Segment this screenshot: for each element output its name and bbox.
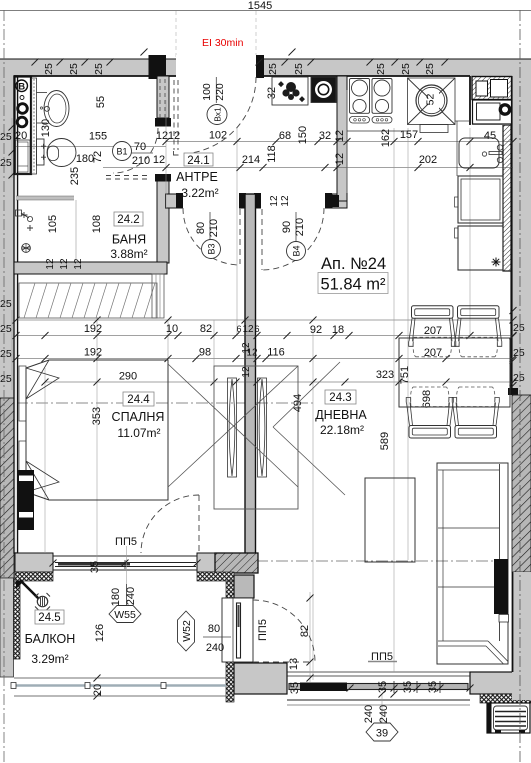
svg-text:1545: 1545 [248, 0, 272, 12]
living balcony-side wall insulation [226, 581, 234, 702]
svg-text:240: 240 [378, 705, 390, 723]
svg-text:180: 180 [110, 588, 122, 606]
bath bottom wall [14, 262, 167, 274]
svg-text:ПП5: ПП5 [115, 536, 137, 548]
toilet [37, 139, 45, 165]
shower tray [16, 140, 31, 174]
living bottom window [287, 672, 470, 705]
svg-text:12: 12 [280, 195, 291, 207]
kitchen tall cabinets / fridge [458, 176, 503, 223]
neighbour terrace hatched right [512, 395, 531, 572]
section axis living [256, 560, 500, 562]
svg-text:35: 35 [377, 681, 389, 693]
svg-text:39: 39 [376, 728, 388, 740]
nightstand [18, 470, 35, 530]
dim line bedroom row1 [16, 319, 513, 321]
door tag B4 [287, 242, 306, 261]
svg-text:589: 589 [379, 432, 391, 450]
bedroom window wall right pier [197, 553, 215, 572]
svg-text:25: 25 [400, 63, 412, 75]
window W55 bedroom [53, 556, 197, 570]
svg-text:105: 105 [47, 215, 59, 233]
svg-text:18: 18 [332, 324, 344, 336]
svg-text:116: 116 [267, 347, 285, 359]
witness verticals [12, 90, 470, 726]
hall bottom wall piece right [325, 193, 332, 209]
svg-text:24.2: 24.2 [117, 214, 139, 226]
hall/kitchen wall vertical [337, 76, 347, 201]
fraction lines [129, 152, 153, 154]
balcony left wall grey [0, 578, 14, 677]
svg-text:ПП5: ПП5 [257, 619, 269, 641]
left apartment wall (bath+bedroom) [14, 76, 18, 553]
chair bottom 1 [406, 387, 453, 438]
door B4 swing [261, 209, 263, 270]
svg-text:155: 155 [89, 131, 107, 143]
svg-text:БАНЯ: БАНЯ [112, 233, 146, 247]
svg-text:80: 80 [208, 623, 220, 635]
bathroom installation shaft panel [15, 77, 32, 175]
svg-text:210: 210 [208, 219, 220, 237]
svg-text:210: 210 [294, 218, 306, 236]
svg-text:52: 52 [425, 94, 437, 106]
svg-text:162: 162 [380, 129, 392, 147]
svg-text:82: 82 [299, 625, 311, 637]
balcony door swing [253, 661, 312, 663]
svg-text:25: 25 [0, 298, 12, 310]
hall bottom wall piece at bath [166, 194, 177, 208]
neighbour strip right [512, 125, 531, 395]
svg-text:118: 118 [266, 145, 278, 163]
svg-text:80: 80 [195, 222, 207, 234]
svg-text:ПП5: ПП5 [371, 651, 393, 663]
svg-text:В3: В3 [207, 243, 217, 254]
sliding panel bedroom side [228, 378, 237, 477]
svg-text:55: 55 [95, 96, 107, 108]
room 24.4 [112, 392, 165, 440]
door tag Bx1 [207, 105, 227, 125]
neighbour hatched wall left [0, 398, 14, 578]
svg-text:W52: W52 [181, 620, 193, 642]
svg-text:25: 25 [513, 372, 525, 384]
boiler [473, 100, 512, 124]
svg-text:98: 98 [199, 347, 211, 359]
bath right wall upper [157, 76, 169, 118]
svg-text:100: 100 [201, 83, 213, 101]
wardrobe niche both sides [214, 366, 298, 509]
dim line hall row [166, 141, 513, 143]
wardrobe cross lines [168, 364, 298, 487]
neighbour area top right [472, 76, 531, 125]
svg-text:12: 12 [59, 258, 70, 270]
vent shaft with circle [311, 77, 336, 103]
bath right wall lower [155, 174, 171, 182]
bed [26, 360, 168, 500]
svg-text:24.3: 24.3 [329, 392, 351, 404]
svg-text:353: 353 [91, 407, 103, 425]
property axis vertical left [3, 10, 5, 763]
svg-text:В1: В1 [116, 147, 127, 157]
svg-text:12: 12 [269, 195, 280, 207]
svg-text:25: 25 [0, 373, 12, 385]
svg-text:11.07m²: 11.07m² [117, 426, 160, 440]
svg-text:24.5: 24.5 [38, 612, 60, 624]
svg-text:12: 12 [334, 153, 346, 165]
svg-text:22.18m²: 22.18m² [320, 423, 364, 437]
neighbour strip right lower [512, 572, 531, 700]
svg-text:EI 30min: EI 30min [202, 37, 244, 49]
svg-text:214: 214 [242, 154, 260, 166]
svg-text:25: 25 [513, 347, 525, 359]
svg-text:220: 220 [214, 83, 226, 101]
stove [350, 79, 370, 114]
room 24.1 [176, 153, 219, 200]
svg-text:24.4: 24.4 [127, 394, 150, 406]
svg-text:290: 290 [119, 371, 137, 383]
svg-text:БАЛКОН: БАЛКОН [25, 632, 76, 646]
apartment label [318, 255, 388, 294]
svg-text:25: 25 [93, 63, 105, 75]
chair top 2 [455, 306, 502, 357]
svg-text:240: 240 [125, 587, 137, 605]
svg-text:3.88m²: 3.88m² [110, 247, 147, 261]
bedroom window wall left pier [15, 553, 53, 572]
coffee table [365, 478, 415, 562]
svg-text:B: B [18, 82, 25, 93]
bedroom window swing [198, 495, 200, 552]
neighbour strip left [0, 59, 14, 398]
svg-text:24.1: 24.1 [187, 155, 209, 167]
room 24.2 [110, 212, 147, 261]
svg-text:45: 45 [484, 130, 496, 142]
svg-text:82: 82 [200, 323, 212, 335]
AC unit [487, 703, 530, 733]
svg-text:25: 25 [0, 348, 12, 360]
svg-text:12: 12 [242, 324, 254, 335]
electric meter B [16, 80, 28, 92]
svg-text:25: 25 [293, 63, 305, 75]
door tag B3 [202, 240, 221, 259]
svg-text:32: 32 [319, 130, 331, 142]
insulation bottom right [480, 694, 531, 703]
svg-text:25: 25 [0, 323, 12, 335]
svg-text:202: 202 [419, 154, 437, 166]
svg-text:25: 25 [513, 322, 525, 334]
door tag B1 [113, 142, 132, 161]
svg-text:70: 70 [134, 141, 146, 153]
chair bottom 2 [452, 387, 499, 438]
svg-text:35: 35 [89, 561, 101, 573]
svg-text:180: 180 [76, 153, 94, 165]
window tag W55 [109, 606, 141, 623]
svg-text:10: 10 [166, 323, 178, 335]
svg-text:W55: W55 [114, 609, 136, 621]
tv unit [494, 559, 508, 614]
shower head fixture [16, 210, 22, 216]
svg-text:25: 25 [267, 63, 279, 75]
svg-text:25: 25 [424, 63, 436, 75]
entrance opening [176, 55, 256, 77]
wardrobe row under bathroom [19, 283, 157, 318]
svg-text:126: 126 [94, 624, 106, 642]
round sink x2 [408, 78, 456, 125]
balcony lamp [20, 580, 39, 599]
room 24.3 [315, 390, 367, 437]
svg-text:240: 240 [363, 705, 375, 723]
kitchen right wall hatched [503, 125, 512, 271]
pillow 2 [26, 461, 59, 500]
svg-text:192: 192 [84, 347, 102, 359]
svg-text:20: 20 [92, 684, 104, 696]
svg-text:ДНЕВНА: ДНЕВНА [315, 408, 367, 422]
svg-text:12: 12 [153, 154, 165, 166]
door B3 swing [239, 209, 241, 264]
svg-text:108: 108 [91, 215, 103, 233]
svg-text:240: 240 [206, 642, 224, 654]
svg-text:192: 192 [84, 323, 102, 335]
window tag W52 [178, 611, 195, 651]
svg-text:12: 12 [73, 258, 84, 270]
svg-text:6: 6 [236, 324, 241, 334]
svg-text:207: 207 [424, 347, 442, 359]
entrance plant box [272, 77, 308, 105]
central wall bedroom/living [245, 194, 256, 554]
svg-text:25: 25 [0, 131, 12, 143]
svg-text:35: 35 [289, 682, 301, 694]
room 24.5 [25, 610, 76, 666]
svg-text:35: 35 [402, 681, 414, 693]
svg-text:12: 12 [241, 366, 252, 378]
sofa [437, 463, 508, 664]
svg-text:150: 150 [297, 126, 309, 144]
svg-text:Ап. №24: Ап. №24 [321, 255, 386, 273]
svg-text:751: 751 [399, 366, 411, 384]
balcony railing [11, 678, 226, 696]
svg-text:13: 13 [288, 658, 300, 670]
svg-text:СПАЛНЯ: СПАЛНЯ [112, 410, 165, 424]
balcony left wall insulation [14, 578, 21, 659]
kitchen counter edge [347, 130, 408, 132]
floor drain [22, 244, 31, 253]
section axis bedroom [16, 402, 313, 404]
svg-text:698: 698 [421, 390, 433, 408]
svg-text:51.84 m²: 51.84 m² [320, 276, 386, 294]
svg-text:207: 207 [424, 325, 442, 337]
living bottom wall left block [234, 663, 287, 694]
property axis vertical right [519, 10, 521, 763]
svg-text:90: 90 [281, 221, 293, 233]
svg-text:Вх1: Вх1 [213, 107, 223, 122]
washbasin [37, 92, 48, 94]
pillow 1 [26, 360, 59, 399]
dim line bedroom row3 [45, 381, 513, 383]
insulation under bedroom wall [15, 572, 53, 581]
svg-text:12: 12 [334, 130, 346, 142]
dining table [399, 338, 510, 407]
hall bottom wall piece middle caps [239, 193, 246, 209]
kitchen sink [459, 138, 499, 168]
svg-text:АНТРЕ: АНТРЕ [176, 170, 218, 184]
svg-text:12: 12 [45, 258, 56, 270]
svg-text:6: 6 [254, 324, 259, 334]
svg-text:92: 92 [310, 324, 322, 336]
svg-text:3.22m²: 3.22m² [181, 186, 218, 200]
top dimension line 1545 [0, 10, 531, 12]
column at wall junction [215, 553, 258, 573]
chair top 1 [409, 306, 456, 357]
svg-text:130: 130 [40, 119, 52, 137]
sliding panel living side [258, 378, 267, 477]
witness lines of entrance opening [175, 11, 177, 59]
living bottom wall right block [470, 672, 531, 694]
dim line hall row2 [103, 167, 513, 169]
svg-text:В4: В4 [292, 245, 302, 256]
bath partition [16, 196, 74, 200]
svg-text:235: 235 [69, 167, 81, 185]
svg-text:12: 12 [241, 342, 252, 354]
svg-text:323: 323 [376, 369, 394, 381]
living balcony-side wall above door [234, 575, 254, 598]
entrance door swing [191, 77, 256, 153]
window tag 39 [366, 723, 398, 741]
dim line bedroom row2 [16, 358, 513, 360]
svg-text:68: 68 [279, 130, 291, 142]
svg-text:3.29m²: 3.29m² [31, 652, 68, 666]
top wall band [0, 59, 531, 76]
svg-text:25: 25 [68, 63, 80, 75]
svg-text:25: 25 [0, 157, 12, 169]
shafts top right [472, 77, 512, 100]
svg-text:102: 102 [209, 130, 227, 142]
balcony door W52 [222, 598, 253, 662]
svg-text:25: 25 [43, 63, 55, 75]
door B1 swing [113, 128, 158, 173]
svg-text:35: 35 [427, 681, 439, 693]
svg-text:25: 25 [375, 63, 387, 75]
